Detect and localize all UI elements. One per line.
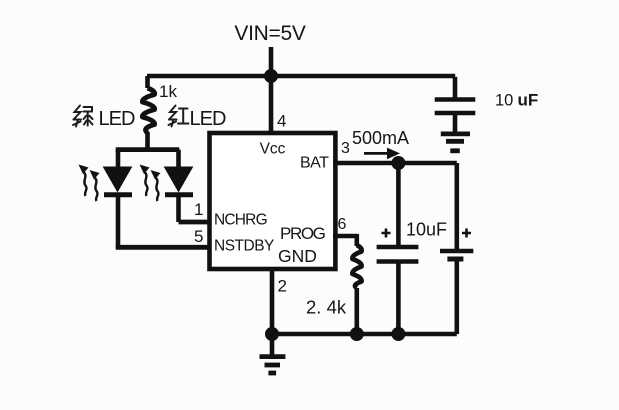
- svg-text:LED: LED: [190, 108, 226, 130]
- capacitor C1 10uF input: [435, 77, 476, 132]
- svg-text:500mA: 500mA: [352, 128, 409, 148]
- node VIN=5V label: [234, 22, 305, 45]
- junction VIN node dot: [264, 69, 278, 83]
- pin label 2: [278, 277, 287, 296]
- U1 label GND: [278, 246, 317, 266]
- pin label 3: [341, 140, 350, 157]
- resistor R1 1k: [142, 76, 154, 149]
- wire D1 cathode to pin 5: [116, 245, 210, 250]
- svg-text:NSTDBY: NSTDBY: [214, 238, 274, 255]
- svg-text:PROG: PROG: [280, 224, 325, 243]
- LED D2 red: [165, 150, 194, 222]
- pin label 5: [194, 227, 203, 246]
- wire D2 cathode to pin 1: [179, 220, 211, 225]
- svg-text:5: 5: [194, 227, 203, 246]
- value label 1k: [159, 82, 177, 101]
- svg-text:4: 4: [277, 112, 286, 131]
- pin label 4: [277, 112, 286, 131]
- junction dot GND/pin2: [265, 327, 279, 341]
- resistor R2 2.4k: [352, 245, 361, 334]
- wire pin 6 PROG: [333, 234, 357, 246]
- svg-text:Vcc: Vcc: [260, 141, 286, 158]
- junction dot R2 bottom: [350, 327, 364, 341]
- junction BAT node dot: [391, 156, 405, 170]
- svg-text:3: 3: [341, 140, 350, 157]
- pin label 6: [338, 216, 347, 233]
- arrow 500mA current direction: [364, 148, 400, 160]
- battery BT1: [440, 163, 473, 334]
- ground symbol C1: [441, 134, 470, 151]
- BT1 plus sign: [462, 229, 471, 238]
- svg-text:LED: LED: [99, 108, 135, 130]
- svg-text:VIN=5V: VIN=5V: [234, 22, 305, 45]
- ground symbol main: [260, 334, 286, 373]
- C2 plus sign: [382, 229, 391, 238]
- value label 10uF (C1): [495, 91, 538, 110]
- value label 10uF (C2): [406, 220, 447, 240]
- LED D1 green: [104, 150, 133, 248]
- label green LED (绿LED): [73, 106, 135, 131]
- op-amp U1 charger IC body: [210, 133, 336, 269]
- wire top rail: [147, 74, 455, 79]
- U1 label Vcc: [260, 141, 286, 158]
- svg-text:2. 4k: 2. 4k: [306, 297, 347, 318]
- svg-text:1k: 1k: [159, 82, 177, 101]
- wire VIN stub down to top rail: [269, 47, 274, 78]
- pin label 1: [194, 200, 203, 219]
- svg-text:NCHRG: NCHRG: [214, 212, 267, 229]
- label 500mA: [352, 128, 409, 148]
- label red LED (红LED): [169, 106, 226, 131]
- svg-text:10uF: 10uF: [406, 220, 447, 240]
- junction dot C2 bottom: [391, 327, 405, 341]
- svg-text:1: 1: [194, 200, 203, 219]
- D1 light arrows: [79, 165, 100, 202]
- capacitor C2 10uF: [377, 163, 419, 334]
- wire pin 4 Vcc: [269, 76, 274, 135]
- svg-text:6: 6: [338, 216, 347, 233]
- svg-text:BAT: BAT: [300, 155, 329, 172]
- U1 label PROG: [280, 224, 325, 243]
- wire pin 2 GND drop: [270, 269, 275, 334]
- value label 2.4k: [306, 297, 347, 318]
- svg-text:uF: uF: [518, 91, 539, 110]
- U1 label BAT: [300, 155, 329, 172]
- svg-text:10: 10: [495, 92, 513, 110]
- U1 label NSTDBY: [214, 238, 274, 255]
- wire pin 3 BAT rail: [333, 161, 457, 166]
- wire LED anode bar: [116, 147, 180, 152]
- U1 label NCHRG: [214, 212, 267, 229]
- svg-text:GND: GND: [278, 246, 317, 266]
- svg-text:2: 2: [278, 277, 287, 296]
- wire bottom rail: [272, 332, 457, 337]
- D2 light arrows: [140, 165, 161, 202]
